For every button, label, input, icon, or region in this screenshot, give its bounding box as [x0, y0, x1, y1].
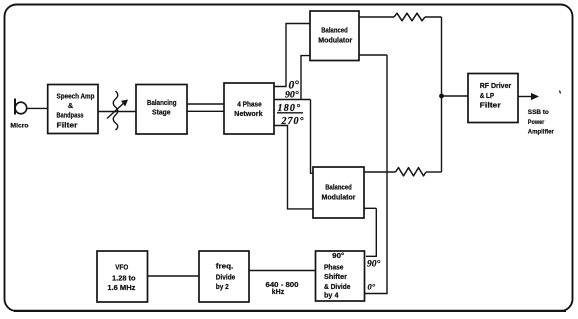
output arrow SSB — [518, 93, 539, 100]
box: 90 deg Phase Shifter & Divide by 4 — [316, 251, 365, 301]
resistor (bottom summing) — [396, 168, 427, 176]
box: VFO 1.28 to 1.6 MHz — [97, 251, 148, 302]
svg-text:Network: Network — [234, 109, 263, 118]
box: Balanced Modulator (bottom) — [313, 167, 364, 218]
svg-text:90°: 90° — [285, 90, 299, 101]
svg-text:0°: 0° — [368, 282, 376, 292]
svg-text:& Divide: & Divide — [324, 284, 351, 291]
svg-text:Bandpass: Bandpass — [57, 112, 84, 119]
svg-text:Amplifier: Amplifier — [528, 129, 554, 136]
wire bottom modulator output — [364, 171, 396, 173]
svg-text:SSB to: SSB to — [528, 109, 549, 116]
svg-text:by 4: by 4 — [324, 292, 339, 299]
svg-text:270°: 270° — [281, 116, 305, 127]
svg-text:Filter: Filter — [57, 122, 78, 129]
box: RF Driver & LP Filter — [468, 74, 518, 123]
svg-text:Balanced: Balanced — [325, 184, 352, 191]
svg-text:Divide: Divide — [216, 275, 236, 282]
label 640 - 800 kHz — [266, 280, 299, 296]
svg-text:Balanced: Balanced — [321, 28, 348, 35]
svg-text:1.28 to: 1.28 to — [112, 275, 136, 282]
wire junction to RF driver — [442, 95, 469, 97]
svg-text:& LP: & LP — [480, 93, 495, 100]
wire divider to phase shifter — [249, 270, 316, 272]
carrier stub into bottom modulator — [364, 207, 376, 209]
box: Speech Amp & Bandpass Filter — [48, 85, 98, 134]
wire resistor to summing line — [426, 171, 442, 173]
carrier 90-deg wire (phase shifter to bottom modulator) — [366, 208, 376, 256]
svg-text:1.6 MHz: 1.6 MHz — [107, 285, 136, 292]
carrier 0-deg vertical wire (phase shifter to top modulator) — [365, 55, 388, 294]
svg-text:90°: 90° — [367, 259, 381, 270]
carrier stub into top modulator — [359, 54, 387, 56]
summing vertical wire — [441, 17, 443, 172]
svg-text:Stage: Stage — [152, 107, 171, 116]
resistor (top summing) — [394, 13, 425, 21]
svg-text:4 Phase: 4 Phase — [237, 100, 262, 109]
stray tick mark — [560, 91, 561, 94]
svg-text:kHz: kHz — [272, 289, 285, 296]
svg-text:Shifter: Shifter — [324, 274, 347, 281]
box: freq. Divide by 2 — [199, 251, 249, 302]
svg-text:Filter: Filter — [480, 103, 501, 110]
svg-text:freq.: freq. — [216, 264, 234, 271]
wire 270-deg audio to bottom balanced modulator — [274, 126, 314, 209]
potentiometer / level control symbol — [107, 91, 128, 130]
double wire balancing stage to 4 phase network — [187, 103, 224, 105]
svg-text:90°: 90° — [332, 252, 344, 260]
svg-text:Micro: Micro — [10, 123, 28, 130]
svg-text:Power: Power — [528, 119, 545, 126]
svg-text:640 - 800: 640 - 800 — [266, 280, 299, 289]
junction node — [439, 94, 444, 99]
label SSB to Power Amplifier — [528, 109, 554, 136]
wire speech amp to balancing stage (through pot) — [98, 111, 136, 113]
frame bottom emphasis — [14, 310, 566, 312]
box: 4 Phase Network — [224, 83, 274, 134]
wire mic to speech amp — [27, 107, 48, 109]
svg-text:Phase: Phase — [324, 264, 344, 271]
wire 0-deg audio to top balanced modulator — [274, 24, 310, 87]
svg-text:Modulator: Modulator — [318, 38, 352, 45]
svg-text:by 2: by 2 — [216, 284, 229, 291]
wire top modulator output — [359, 16, 394, 18]
svg-text:VFO: VFO — [115, 264, 129, 271]
wire resistor to summing line — [425, 16, 442, 18]
svg-text:Speech Amp: Speech Amp — [57, 94, 95, 101]
wire 180-deg audio to bottom balanced modulator — [311, 100, 314, 174]
box: Balanced Modulator (top) — [310, 11, 359, 61]
svg-text:Modulator: Modulator — [322, 194, 356, 201]
svg-text:Balancing: Balancing — [147, 98, 177, 107]
wire 90-deg audio to top balanced modulator — [274, 99, 311, 101]
svg-text:RF Driver: RF Driver — [480, 83, 512, 90]
box: Balancing Stage — [136, 85, 187, 135]
wire VFO to divider — [148, 275, 200, 277]
microphone MIC — [10, 99, 28, 130]
svg-text:&: & — [68, 103, 73, 110]
